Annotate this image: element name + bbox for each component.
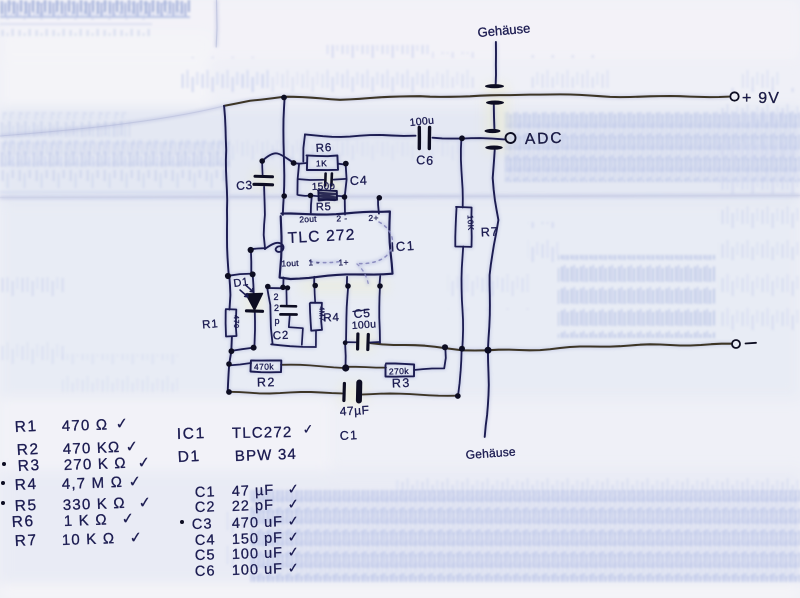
capacitor C2 plate 2 [281, 313, 297, 316]
junction +9V drop [281, 95, 287, 101]
wire C3 top stub [261, 161, 264, 175]
op-amp IC1 body [280, 212, 393, 280]
capacitor C1 plate 1 [342, 384, 346, 401]
scan fringe C1 [340, 384, 366, 404]
wire R3 right jog up [414, 349, 446, 370]
wire ADC node to R7 [461, 138, 463, 207]
resistor R2 body [251, 360, 282, 372]
wire Gehaeuse top lead [495, 42, 497, 84]
wire C4 left lead [298, 178, 323, 181]
svg-text:R1: R1 [14, 418, 38, 436]
svg-text:100 uF: 100 uF [232, 561, 284, 579]
bleed band fartop-right [742, 58, 780, 88]
svg-text:R4: R4 [323, 312, 340, 325]
junction 1- pin [312, 283, 318, 289]
wire rail to D1 top [228, 274, 253, 276]
junction C5 left [343, 340, 348, 345]
svg-text:R3: R3 [17, 457, 41, 475]
svg-text:p: p [275, 316, 280, 326]
chassis wall bar 1 [485, 84, 504, 88]
resistor R6 body [307, 155, 339, 170]
wire R2 line left [229, 363, 251, 365]
svg-text:R2: R2 [257, 375, 276, 389]
junction rail at D1 return [229, 348, 235, 354]
capacitor C4 plate 1 [324, 174, 327, 186]
chassis wall bar 2 [486, 101, 504, 105]
capacitor C3 plate 2 [254, 183, 273, 187]
junction R3 riser on 0V line [442, 344, 448, 350]
bleed cluster right3 [718, 262, 800, 338]
svg-text:270k: 270k [389, 366, 410, 377]
wire faint crease left of +9V line [0, 106, 224, 136]
wire 0V output line [371, 343, 733, 350]
wire C2 wrap left vertical [267, 287, 273, 345]
wire pin 1out stub [282, 278, 284, 288]
svg-text:✓: ✓ [287, 529, 300, 545]
junction 2+ stub end [377, 195, 383, 201]
bleed band left row2 [0, 140, 230, 167]
chassis wall bar 4 [485, 146, 503, 150]
svg-text:270 K Ω: 270 K Ω [64, 455, 128, 474]
junction rail bottom corner [226, 389, 232, 395]
junction ADC node [459, 135, 465, 141]
svg-text:+ 9V: + 9V [742, 90, 780, 107]
capacitor C3 plate 1 [255, 175, 273, 179]
junction D1 bottom [251, 345, 257, 351]
wire pin 1+ stub [346, 277, 348, 286]
bleed bottom left part [225, 505, 255, 578]
svg-text:R6: R6 [315, 142, 332, 155]
op-amp second amp dashed arc [357, 222, 393, 264]
scan fringe C3 [252, 172, 276, 188]
svg-text:1 -: 1 - [308, 257, 319, 267]
svg-text:✓: ✓ [287, 544, 300, 560]
svg-text:100 uF: 100 uF [232, 545, 284, 563]
svg-text:2 -: 2 - [336, 213, 347, 223]
capacitor C4 plate 2 [330, 174, 333, 186]
wire pin 1- stub [313, 277, 315, 286]
svg-text:TLC272: TLC272 [232, 424, 293, 442]
bleed band top-left [0, 0, 190, 18]
bleed bottom big band b [250, 493, 800, 580]
junction R6 right [343, 161, 349, 167]
svg-text:2: 2 [274, 303, 279, 313]
svg-text:C4: C4 [350, 173, 368, 188]
wire C5 left lead [345, 341, 356, 343]
terminal ADC circle [506, 133, 516, 143]
svg-text:100u: 100u [351, 318, 376, 332]
wire C5 right lead [370, 341, 379, 344]
junction R7 on 0V line [459, 346, 465, 352]
svg-text:✓: ✓ [128, 473, 142, 491]
bleed band mid-top [325, 45, 430, 95]
junction V+ at 196 [281, 193, 287, 199]
bleed band behind R6 [232, 140, 360, 163]
svg-text:✓: ✓ [125, 438, 139, 456]
svg-text:1+: 1+ [338, 257, 349, 267]
svg-text:C3: C3 [192, 516, 213, 533]
svg-text:470k: 470k [254, 361, 275, 371]
svg-text:470 uF: 470 uF [232, 514, 284, 532]
chassis wall bar 3 [485, 129, 501, 133]
svg-text:10 K Ω: 10 K Ω [62, 530, 116, 549]
bleed band right-upper b [505, 116, 800, 180]
svg-text:R5: R5 [316, 201, 332, 214]
bleed cluster mid-right3 [448, 265, 530, 310]
scan fringe D1 [246, 293, 264, 313]
wire block right vertical [345, 164, 347, 215]
svg-text:C1: C1 [339, 428, 358, 443]
op-amp dashed segment near 1- [310, 262, 340, 263]
svg-text:150p: 150p [312, 181, 336, 193]
wire Gehaeuse seg3 [493, 105, 496, 129]
terminal 0V minus dash [746, 342, 757, 345]
wire D1 anode [253, 274, 254, 293]
junction 1out pin [280, 285, 286, 291]
wire Gehaeuse lower [485, 150, 499, 437]
resistor R1 body [226, 309, 237, 336]
wire R7 bottom lead [462, 247, 464, 350]
svg-text:C2: C2 [273, 330, 290, 343]
resistor R7 body [455, 207, 471, 247]
wire bottom line rail to C1 [229, 392, 342, 394]
bleed cluster mid-right1 [528, 222, 560, 272]
svg-text:100u: 100u [409, 114, 435, 129]
svg-text:D1: D1 [233, 276, 250, 290]
bleed band right-upper [505, 112, 800, 182]
svg-text:R7: R7 [14, 532, 38, 550]
bleed band top-left b [0, 2, 185, 17]
svg-text:R3: R3 [392, 376, 411, 391]
wire C2 wrap bottom [271, 344, 316, 347]
svg-text:4,7 M Ω: 4,7 M Ω [62, 474, 124, 493]
capacitor C2 plate 1 [281, 305, 296, 308]
wire R4 top lead [313, 286, 316, 303]
junction R5 right [342, 194, 348, 200]
bleed right column [718, 88, 800, 260]
legend bullet R5 [1, 501, 5, 505]
svg-text:47µF: 47µF [339, 403, 369, 419]
bleed band gehaeuse-left [432, 52, 476, 88]
terminal +9V circle [730, 92, 738, 100]
wire 1out loop into IC1 [265, 243, 284, 252]
svg-text:TLC 272: TLC 272 [287, 226, 356, 247]
legend bullet R4 [1, 481, 5, 485]
wire C6 line [305, 134, 416, 137]
scan fringe C4 [316, 175, 342, 201]
wire pin 2+ stub [377, 199, 380, 213]
svg-text:✓: ✓ [287, 513, 300, 529]
bleed band behind C6 [360, 141, 465, 160]
wire C5 node to R2R3 line [344, 343, 347, 368]
legend bullet R3 [2, 462, 6, 466]
svg-text:1out: 1out [281, 258, 299, 269]
legend bullet C3 [180, 520, 184, 524]
svg-text:✓: ✓ [138, 494, 152, 512]
bleed left edge mid [0, 277, 66, 300]
capacitor C5 plate 1 [356, 334, 359, 349]
wire +9V supply line [224, 94, 729, 106]
svg-text:ADC: ADC [525, 130, 564, 148]
svg-text:✓: ✓ [121, 510, 135, 528]
wire C6 to ADC terminal [433, 138, 505, 140]
bleed left low1 [0, 340, 64, 366]
svg-text:R6: R6 [11, 513, 35, 531]
junction R6 left [291, 160, 297, 166]
bleed band left row1 [0, 112, 130, 137]
wire riser from bottom line to 0- [458, 350, 462, 396]
wire C4 vertical to R5 node [299, 194, 311, 197]
junction C2 top [285, 285, 290, 290]
junction 1out exit [248, 247, 254, 253]
wire C6 line to R6 [303, 135, 305, 162]
diode D1 triangle [246, 294, 263, 311]
wire pin V- to C5 right [378, 286, 381, 343]
capacitor C1 plate 2 thick [356, 383, 362, 401]
bleed left low2 [62, 354, 178, 392]
svg-text:IC1: IC1 [390, 238, 416, 255]
op-amp dashed exit segment [357, 264, 369, 285]
svg-text:D1: D1 [177, 448, 201, 466]
junction V- pin [377, 283, 383, 289]
scan fringe opamp pins [300, 280, 388, 292]
svg-text:✓: ✓ [137, 454, 151, 472]
svg-text:22 pF: 22 pF [232, 498, 275, 515]
svg-text:470 Ω: 470 Ω [62, 416, 109, 435]
capacitor C6 plate 1 [418, 128, 422, 149]
wire 1out node segment [268, 287, 289, 289]
diode D1 light arrow 2 [246, 285, 254, 292]
wire C3 bottom lead [264, 187, 265, 249]
wire left rail below R1 [228, 337, 232, 393]
scan fringe C5 [352, 333, 374, 351]
wire left rail R1 section [229, 276, 230, 310]
wire left rail upper [224, 106, 229, 276]
paper crease y196 [0, 196, 800, 198]
wire R6 right lead [338, 163, 346, 166]
bleed scratch line x216 [215, 0, 218, 47]
wire D1 to rail bottom [231, 348, 253, 351]
terminal 0V circle [732, 340, 740, 348]
junction rail R2 line [226, 361, 232, 367]
wire C2 bottom lead [289, 315, 303, 345]
wire R2 line middle [281, 365, 346, 368]
bleed band top-left 2 [0, 18, 152, 36]
diode D1 cathode bar [247, 309, 263, 313]
svg-text:✓: ✓ [129, 529, 143, 547]
svg-text:2: 2 [274, 292, 279, 302]
svg-text:2+: 2+ [368, 213, 379, 223]
wire R4 bottom lead [315, 331, 317, 346]
wire C4 left vertical [297, 165, 299, 195]
diode D1 light arrow 1 [240, 290, 248, 297]
svg-text:C6: C6 [416, 153, 435, 168]
bleed band right-top [530, 55, 610, 88]
bleed band above R6 [235, 58, 325, 95]
bleed band left row2b [0, 142, 230, 166]
junction R2 R3 C5 node [342, 364, 349, 371]
wire pin V- stub [378, 276, 381, 286]
wire pin 2out [311, 196, 312, 213]
junction R5 left [308, 193, 314, 199]
svg-text:R4: R4 [14, 476, 38, 494]
wire +9V drop to IC1 [283, 98, 285, 215]
wire C3 to R6 hop [262, 153, 293, 162]
svg-text:✓: ✓ [302, 421, 314, 437]
wire R5 left lead [311, 195, 319, 198]
bleed band left row3 [0, 170, 228, 196]
svg-text:1 K Ω: 1 K Ω [64, 511, 108, 530]
svg-text:2out: 2out [299, 214, 317, 225]
junction C2 wrap top [265, 284, 271, 290]
wire bottom line C1 to riser [361, 394, 458, 396]
svg-text:C5: C5 [195, 547, 216, 564]
resistor R4 body [310, 303, 322, 331]
svg-text:C2: C2 [195, 499, 216, 516]
wire R5 right lead [337, 195, 345, 197]
resistor R5 body [318, 190, 337, 200]
wire 1out node down to D1 line [250, 250, 252, 275]
svg-text:✓: ✓ [287, 496, 300, 512]
wire C2 top lead [285, 288, 287, 306]
svg-text:C6: C6 [195, 563, 216, 580]
junction C3 top [259, 158, 265, 164]
capacitor C6 plate 2 [428, 128, 432, 149]
svg-text:✓: ✓ [287, 560, 300, 576]
label C5 strike [353, 310, 369, 312]
wire D1 cathode [253, 312, 256, 348]
svg-text:✓: ✓ [115, 415, 129, 433]
scan fringe bars [486, 84, 508, 152]
bleed bottom sparse row [395, 468, 800, 492]
svg-text:IC1: IC1 [177, 425, 206, 443]
junction rail to D1 [225, 273, 231, 279]
bleed band left-middle 1 [180, 57, 270, 95]
junction D1 top [250, 271, 256, 277]
capacitor C5 plate 2 [366, 335, 370, 350]
wire pin 1+ to C5 [346, 286, 348, 343]
svg-text:R7: R7 [480, 225, 499, 240]
resistor R3 body [386, 363, 415, 376]
svg-text:R1: R1 [202, 318, 219, 331]
wire R2 line to R3 [346, 366, 386, 369]
svg-text:✓: ✓ [287, 481, 300, 497]
junction bottom line riser [455, 393, 461, 399]
svg-text:470: 470 [232, 315, 241, 329]
svg-text:1K: 1K [316, 158, 328, 168]
svg-text:10K: 10K [466, 215, 476, 231]
svg-text:C3: C3 [236, 178, 253, 193]
bleed cluster mid-right2 [558, 255, 715, 338]
wire R6 left lead [294, 162, 307, 165]
wire C4 right lead [334, 178, 346, 181]
svg-text:BPW 34: BPW 34 [235, 446, 298, 465]
junction 1+ pin [345, 283, 351, 289]
bleed bottom big band [250, 490, 800, 582]
resistor R5 scribble fill [319, 193, 336, 200]
wire 1out exit segment [251, 247, 265, 250]
junction Gehaeuse on 0V line [485, 347, 492, 354]
